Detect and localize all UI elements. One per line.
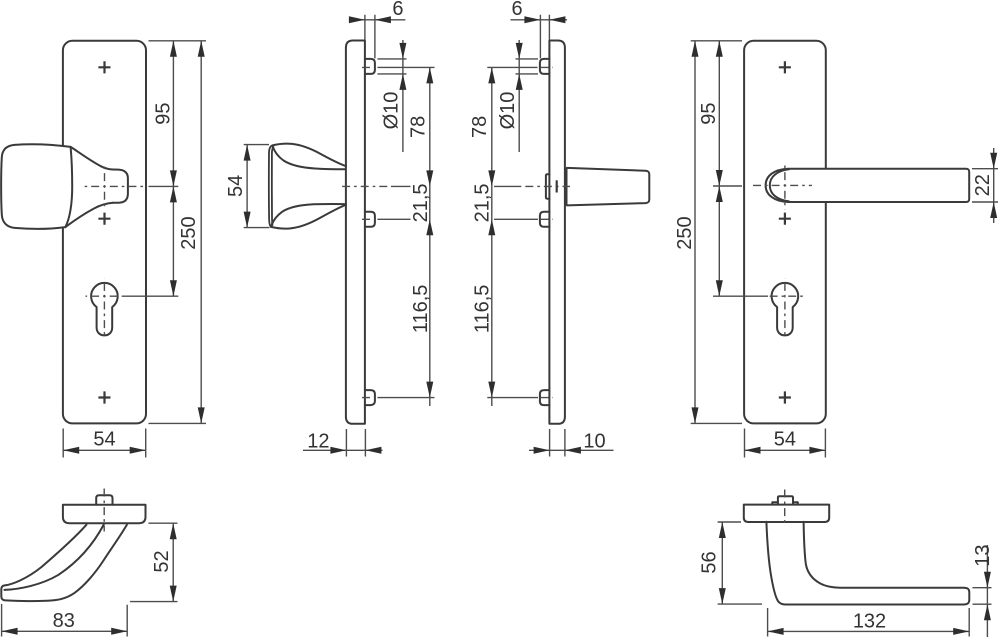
dimension 132	[768, 608, 970, 637]
dimension 54 knob height	[244, 145, 270, 228]
svg-text:78: 78	[469, 116, 491, 138]
svg-text:54: 54	[225, 175, 247, 197]
dimension 54 bottom fig1	[63, 429, 146, 458]
svg-text:54: 54	[774, 429, 796, 451]
rose bar knob	[63, 505, 146, 524]
dimension 56	[718, 522, 762, 604]
svg-text:132: 132	[853, 610, 886, 632]
svg-text:21,5: 21,5	[471, 183, 493, 222]
cylinder centerline vertical	[103, 279, 105, 338]
dimension 83	[2, 604, 128, 637]
fig3 extension lines left	[487, 59, 538, 398]
dimension 13	[973, 545, 992, 637]
dimension 10 fig3	[529, 429, 614, 457]
svg-text:22: 22	[972, 174, 994, 196]
knob centerline horizontal	[82, 185, 147, 187]
spindle nub lever ears	[772, 502, 798, 504]
fig3 centerline	[521, 185, 571, 187]
fig3 boss middle centerline	[541, 218, 554, 220]
cylinder hole fig1	[91, 283, 118, 335]
dimension line 78 21.5 116.5 fig3	[491, 67, 493, 406]
plate side outline fig3	[549, 41, 565, 424]
dimension line 78 21.5 116.5 fig2	[429, 67, 431, 406]
boss top fig3	[540, 59, 550, 74]
arrows outer dimension	[198, 41, 205, 424]
svg-text:116,5: 116,5	[410, 285, 432, 334]
svg-text:12: 12	[307, 431, 329, 453]
svg-text:52: 52	[151, 550, 173, 572]
svg-text:95: 95	[153, 102, 175, 124]
fig2 boss top centerline	[362, 66, 375, 68]
spindle nub knob	[96, 495, 112, 505]
screw mark middle	[98, 213, 110, 225]
arrows inner dimension	[170, 41, 177, 296]
dimension line 95 inner	[172, 41, 174, 296]
nub centerline	[103, 489, 105, 532]
svg-text:Ø10: Ø10	[497, 92, 519, 130]
extension line knob center right	[124, 186, 178, 296]
svg-text:6: 6	[392, 0, 403, 20]
lever profile outline	[766, 522, 969, 605]
dimension line 250 outer	[200, 41, 202, 424]
spindle nub lever center	[778, 496, 793, 504]
knob side view	[269, 144, 346, 229]
boss middle fig3	[540, 212, 550, 227]
dimension line diameter 10 fig3	[518, 40, 520, 152]
lever collar fig3	[565, 168, 567, 206]
fig3 boss bottom centerline	[541, 397, 554, 399]
knob head front view	[1, 144, 72, 229]
svg-text:83: 83	[53, 610, 75, 632]
lever bar fig4	[766, 169, 970, 202]
extension lines left fig4	[691, 41, 768, 424]
knob profile outline	[1, 525, 127, 601]
nub centerline lever	[784, 490, 786, 527]
fig2 boss bottom centerline	[362, 397, 375, 399]
svg-text:13: 13	[972, 544, 994, 566]
plate outline fig4	[744, 41, 826, 424]
extension line plate bottom right	[149, 422, 207, 424]
svg-text:116,5: 116,5	[471, 285, 493, 334]
dimension 6 fig3	[511, 15, 568, 59]
cylinder centerline vertical fig4	[784, 279, 786, 338]
boss bottom fig2	[365, 390, 375, 405]
dimension 54 bottom fig4	[745, 429, 826, 458]
boss bottom fig3	[540, 390, 550, 405]
cylinder centerline horizontal	[86, 295, 125, 297]
svg-text:250: 250	[674, 216, 696, 249]
dimension 12 fig2	[303, 429, 383, 457]
svg-text:54: 54	[93, 429, 115, 451]
extension line plate top right	[149, 40, 207, 42]
lever hub inner arc	[770, 169, 789, 201]
svg-text:95: 95	[698, 102, 720, 124]
dimension 6 fig2	[349, 15, 406, 59]
screw mark bottom	[98, 391, 110, 403]
knob front view silhouette	[1, 144, 128, 229]
dimension 22 lever height	[972, 148, 998, 223]
screw mark top fig4	[779, 61, 791, 73]
dimension 52	[130, 523, 178, 601]
hub centerline horizontal	[752, 184, 812, 186]
knob neck cap	[113, 170, 128, 203]
boss top fig2	[365, 59, 375, 74]
screw mark top	[98, 61, 110, 73]
spindle hub fig3	[546, 174, 550, 199]
hub centerline vertical	[784, 163, 786, 210]
knob centerline vertical	[104, 164, 106, 209]
lever side view fig3	[567, 168, 649, 206]
rose bar lever	[744, 505, 829, 522]
dimension line diameter 10	[402, 40, 404, 152]
screw mark middle fig4	[779, 213, 791, 225]
svg-text:10: 10	[583, 431, 605, 453]
fig2 centerline	[341, 185, 390, 187]
svg-text:78: 78	[407, 116, 429, 138]
cylinder centerline horizontal fig4	[766, 295, 806, 297]
knob profile inner edge	[4, 525, 103, 590]
svg-text:56: 56	[698, 551, 720, 573]
fig3 boss top centerline	[541, 66, 554, 68]
svg-text:6: 6	[511, 0, 522, 20]
svg-text:Ø10: Ø10	[381, 92, 403, 130]
knob neck front view	[65, 147, 113, 227]
dimension line 95 inner fig4	[718, 41, 720, 296]
plate outline	[63, 41, 146, 424]
cylinder hole fig4	[772, 283, 799, 335]
boss middle fig2	[365, 212, 375, 227]
plate side outline	[346, 41, 365, 424]
fig2 extension lines right	[377, 59, 434, 398]
dimension line 250 outer fig4	[694, 41, 696, 424]
screw mark bottom fig4	[779, 391, 791, 403]
fig2 boss middle centerline	[362, 218, 375, 220]
fig3 center tick	[556, 180, 558, 192]
svg-text:250: 250	[178, 216, 200, 249]
svg-text:21,5: 21,5	[410, 183, 432, 222]
